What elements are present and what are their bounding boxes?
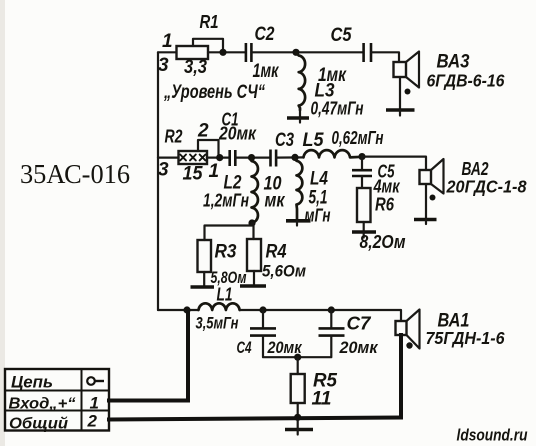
svg-text:C5: C5 <box>331 25 352 46</box>
node junction L2 <box>248 154 255 161</box>
wire C4/C7 bottoms link <box>263 336 331 358</box>
svg-text:11: 11 <box>312 389 332 410</box>
wire C5 to BA3 <box>371 52 399 62</box>
wire C2 to C5 <box>251 51 363 53</box>
svg-text:R1: R1 <box>200 12 219 32</box>
svg-text:5,6Ом: 5,6Ом <box>262 262 306 281</box>
svg-text:L5: L5 <box>303 130 324 151</box>
svg-text:C2: C2 <box>255 24 275 45</box>
wire R2 wiper tap <box>198 140 219 158</box>
wire common bus <box>109 418 401 420</box>
resistor R2 <box>179 151 208 164</box>
node junction C7 <box>328 306 335 313</box>
capacitor C3 <box>271 150 277 167</box>
svg-text:ВА3: ВА3 <box>437 52 470 73</box>
left edge scan shade <box>0 0 5 446</box>
speaker BA3 <box>394 52 420 95</box>
svg-text:R2: R2 <box>165 127 183 147</box>
node junction R1 tap <box>219 49 226 56</box>
svg-text:C7: C7 <box>347 314 372 334</box>
svg-text:20мк: 20мк <box>218 124 257 144</box>
ground R4 <box>240 271 266 286</box>
svg-text:Цепь: Цепь <box>11 373 53 392</box>
svg-text:R6: R6 <box>375 195 395 215</box>
svg-text:мк: мк <box>265 191 286 212</box>
wire R1 to C2 <box>208 51 245 53</box>
wire C4 stem top <box>262 310 264 327</box>
svg-text:6ГДВ-6-16: 6ГДВ-6-16 <box>427 71 505 91</box>
capacitor C1 <box>230 150 236 166</box>
wire mid row from bus to R2 <box>158 157 178 159</box>
wire junction to C5 bottom <box>361 157 363 169</box>
wire L2 bottom to R3/R4 <box>205 223 254 240</box>
inductor L3 <box>296 52 305 110</box>
svg-text:3: 3 <box>158 55 169 76</box>
connector pin symbol <box>87 377 104 385</box>
node junction R5 top <box>294 354 301 361</box>
inductor L5 <box>304 150 363 157</box>
svg-text:„Уровень СЧ“: „Уровень СЧ“ <box>163 82 265 103</box>
svg-text:ldsound.ru: ldsound.ru <box>457 426 528 445</box>
node junction R5 ground <box>294 414 301 421</box>
node junction C4 <box>259 306 266 313</box>
node junction input <box>183 306 190 313</box>
svg-text:3,5мГн: 3,5мГн <box>196 314 239 333</box>
svg-text:2: 2 <box>197 121 209 142</box>
wire C7 stem top <box>330 310 332 327</box>
ground R3 <box>191 272 215 287</box>
svg-text:35АС-016: 35АС-016 <box>20 159 130 189</box>
ground L4 <box>286 221 311 226</box>
capacitor C5 (top) <box>364 43 371 62</box>
wire input plus <box>109 312 188 401</box>
svg-text:1,2мГн: 1,2мГн <box>203 191 249 211</box>
resistor R3 <box>198 240 212 272</box>
wire L5 to BA2 <box>362 157 426 170</box>
wire L1 to BA1 <box>240 310 401 321</box>
svg-text:1мк: 1мк <box>253 61 280 82</box>
svg-text:Общий: Общий <box>9 416 68 433</box>
inductor L4 <box>295 157 302 219</box>
ground R5 <box>285 417 313 434</box>
svg-text:20мк: 20мк <box>339 338 379 357</box>
node junction L2 bottom <box>248 219 255 226</box>
svg-text:R4: R4 <box>266 242 287 263</box>
svg-text:3: 3 <box>158 160 169 181</box>
capacitor C4 <box>250 328 276 335</box>
resistor R6 <box>357 188 371 222</box>
wire left bus vertical <box>157 52 159 310</box>
svg-text:1: 1 <box>209 161 220 182</box>
wire bottom row from bus <box>158 309 199 311</box>
svg-text:R3: R3 <box>215 242 237 263</box>
svg-text:2: 2 <box>87 412 98 431</box>
svg-text:1: 1 <box>90 394 99 413</box>
wire R5 top stem <box>297 357 299 374</box>
svg-text:C4: C4 <box>237 338 252 357</box>
wire C3 to L5 <box>276 156 303 158</box>
node junction C5/R6 <box>358 153 365 160</box>
wire C5 to R6 <box>361 176 363 188</box>
svg-text:20ГДС-1-8: 20ГДС-1-8 <box>446 177 527 197</box>
svg-text:0,62мГн: 0,62мГн <box>332 128 384 148</box>
wire R5 bottom stem <box>297 403 299 417</box>
node junction L4 <box>291 154 298 161</box>
inductor L1 <box>199 303 240 310</box>
svg-text:мГн: мГн <box>305 206 331 226</box>
ground BA2 <box>414 184 437 224</box>
svg-text:4мк: 4мк <box>373 177 401 197</box>
node junction L3 <box>292 49 299 56</box>
wire R2 to C1 <box>207 157 229 159</box>
svg-text:1: 1 <box>162 31 173 52</box>
capacitor C2 <box>246 43 252 62</box>
resistor R4 <box>247 239 261 271</box>
wire BA1 negative stem <box>399 335 403 418</box>
ground R6 <box>352 222 376 238</box>
svg-text:Вход„+“: Вход„+“ <box>9 396 76 413</box>
ground L3 <box>287 108 309 123</box>
resistor R5 <box>291 374 305 403</box>
connector table <box>5 369 109 431</box>
speaker BA1 <box>396 310 420 349</box>
svg-text:15: 15 <box>183 164 203 185</box>
svg-text:L4: L4 <box>310 169 328 190</box>
resistor R1 <box>177 46 209 59</box>
wire R1 wiper tap <box>193 39 223 53</box>
wire top row to R1 <box>158 51 176 53</box>
svg-text:3,3: 3,3 <box>184 57 207 78</box>
svg-text:C3: C3 <box>275 130 294 151</box>
inductor L2 <box>252 158 258 223</box>
capacitor C7 <box>319 328 345 335</box>
ground BA3 <box>386 77 415 116</box>
svg-text:0,47мГн: 0,47мГн <box>311 99 364 119</box>
capacitor C5 (4мк) <box>352 170 372 176</box>
wire C1 to C3 <box>235 157 270 159</box>
svg-text:8,2Ом: 8,2Ом <box>360 232 406 252</box>
svg-text:75ГДН-1-6: 75ГДН-1-6 <box>426 328 505 348</box>
node junction R2 tap <box>216 154 223 161</box>
speaker BA2 <box>420 159 444 201</box>
svg-text:L1: L1 <box>217 285 233 305</box>
